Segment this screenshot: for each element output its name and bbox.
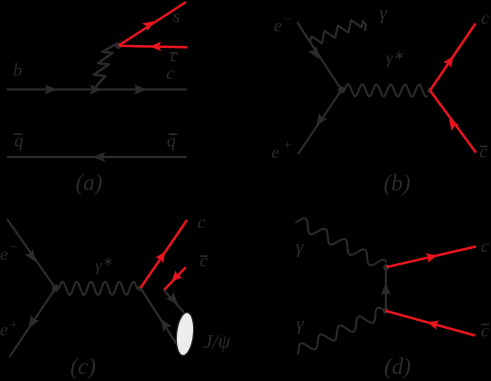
quark line from V2 to J/psi bottom [141, 288, 177, 344]
svg-text:c: c [481, 236, 489, 256]
vertex dot V2 (b) [427, 88, 432, 93]
arrow into J/psi top [166, 292, 178, 305]
arrow on cbar stub (c) [171, 271, 182, 282]
svg-text:γ: γ [380, 3, 388, 24]
wire qbar spectator line [7, 156, 187, 158]
svg-text:c: c [166, 63, 174, 83]
svg-text:γ: γ [296, 314, 304, 335]
arrow on c line (b) [443, 56, 453, 68]
arrow on e+ line (c) [28, 315, 39, 329]
vertex dot V1 (c) [52, 285, 59, 292]
svg-text:(d): (d) [384, 354, 411, 379]
electron line e- (c) [7, 219, 56, 288]
J/psi ellipse blob [174, 312, 195, 357]
svg-text:e: e [0, 320, 8, 340]
photon gamma* wavy line (c) [59, 282, 137, 295]
wire b-to-c quark line [7, 88, 188, 90]
arrow on c line (d) [426, 253, 438, 262]
arrow on cbar line pointing left [150, 42, 161, 52]
vertex dot top of gluon [115, 42, 122, 49]
svg-text:+: + [284, 139, 292, 154]
arrow on cbar (d) pointing to vertex [427, 321, 439, 330]
svg-text:(b): (b) [384, 171, 411, 196]
svg-text:e: e [272, 142, 280, 162]
arrow on c line (right) [134, 85, 147, 95]
arrow on lower line pointing up-left [161, 318, 172, 332]
vertex dot top (d) [383, 264, 389, 270]
svg-text:(a): (a) [76, 170, 103, 195]
photon gamma top wavy (d) [296, 218, 386, 265]
quark line c (red, d) [386, 247, 476, 268]
quark line c (red, b) [430, 24, 476, 91]
svg-text:−: − [283, 13, 291, 28]
internal quark vertical line (d) [385, 267, 387, 311]
svg-text:e: e [274, 15, 282, 35]
antiquark line cbar (red, horizontal) [119, 46, 187, 47]
svg-text:c: c [481, 321, 489, 341]
electron line e- [297, 22, 342, 90]
arrow on cbar line (b) pointing to vertex [449, 119, 459, 131]
antiquark line cbar (red, b) [430, 91, 476, 153]
antiquark stub cbar (red, c) [164, 267, 186, 290]
arrow on b line (left) [45, 85, 58, 95]
positron line e+ (c) [10, 288, 56, 357]
vertex dot bottom (d) [383, 308, 389, 314]
svg-text:c: c [480, 142, 488, 162]
svg-text:∗: ∗ [394, 48, 405, 63]
gluon zigzag g [94, 44, 117, 86]
svg-text:∗: ∗ [103, 254, 114, 269]
svg-text:s: s [173, 6, 180, 26]
arrow on e- line [308, 46, 319, 60]
svg-text:−: − [10, 241, 18, 256]
quark line c (red, c) [141, 220, 188, 288]
svg-text:(c): (c) [70, 354, 96, 379]
arrow on s line [142, 21, 154, 31]
arrow on c line (c) [155, 251, 165, 263]
svg-text:c: c [198, 212, 206, 232]
svg-text:b: b [13, 60, 22, 80]
quark line from junction into J/psi [164, 290, 184, 312]
arrow on e- line (c) [25, 249, 36, 262]
positron line e+ [298, 90, 342, 154]
svg-text:c: c [200, 251, 208, 271]
quark line s (red) [119, 2, 186, 46]
photon gamma bottom wavy (d) [298, 308, 382, 354]
vertex dot V1 (b) [338, 87, 345, 94]
radiated photon gamma zigzag [310, 20, 366, 43]
arrow on qbar line pointing left [93, 152, 106, 162]
svg-text:e: e [0, 244, 8, 264]
svg-text:+: + [10, 318, 18, 333]
arrow at gluon base on b line [90, 85, 103, 95]
svg-text:c: c [481, 8, 489, 28]
svg-text:γ: γ [296, 237, 304, 258]
svg-text:q: q [167, 130, 176, 150]
photon gamma* wavy line (b) [345, 84, 428, 97]
arrow pointing up on internal line [381, 283, 391, 296]
svg-text:J/ψ: J/ψ [204, 331, 231, 353]
arrow on e+ line [316, 113, 327, 126]
vertex dot V2 (c) [137, 285, 143, 291]
antiquark line cbar (red, d) [386, 311, 475, 336]
